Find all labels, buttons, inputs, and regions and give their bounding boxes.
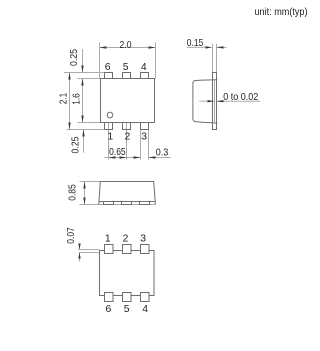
svg-text:5: 5 (123, 62, 129, 73)
lead tab left (104, 202, 114, 205)
pad 3 (141, 245, 150, 254)
svg-text:0.25: 0.25 (71, 136, 82, 153)
lead extension lines (212, 44, 214, 73)
pin 1 indicator circle (107, 112, 113, 118)
dim 0.65 line (104, 157, 126, 159)
svg-text:0.25: 0.25 (69, 49, 80, 66)
dim 1.6 line (82, 79, 84, 123)
svg-text:0.07: 0.07 (66, 227, 77, 244)
pin3 width extension lines (140, 130, 142, 160)
dim 0.85 line (84, 182, 86, 205)
body outline (bottom view) (100, 251, 155, 296)
svg-text:0.3: 0.3 (156, 148, 169, 159)
pin 1 pad (105, 123, 113, 130)
pad 2 (123, 245, 132, 254)
svg-text:0 to 0.02: 0 to 0.02 (223, 92, 258, 103)
dim 0.07 arrows (79, 243, 81, 249)
dim 0.07 extension lines (78, 249, 100, 251)
pin 4 pad (141, 73, 149, 79)
dim 2.0 line (100, 47, 156, 49)
svg-text:6: 6 (105, 62, 111, 73)
svg-text:2: 2 (123, 233, 129, 244)
dim 2.1 line (69, 73, 71, 130)
pin 5 pad (123, 73, 131, 79)
svg-text:5: 5 (124, 304, 130, 315)
svg-text:4: 4 (142, 304, 148, 315)
svg-text:2.1: 2.1 (59, 93, 70, 105)
body-bottom extension line (78, 122, 101, 124)
body bottom-surface line (behind lead) (214, 80, 216, 123)
lead (side view) (213, 73, 217, 130)
svg-text:1: 1 (105, 233, 111, 244)
dim 0 to 0.02 leader right (217, 100, 261, 102)
svg-text:1: 1 (108, 132, 114, 143)
svg-text:3: 3 (140, 233, 146, 244)
svg-text:3: 3 (141, 132, 147, 143)
body-top extension line (78, 78, 101, 80)
pin 6 pad (105, 73, 113, 79)
svg-text:unit: mm(typ): unit: mm(typ) (255, 7, 308, 18)
pitch extension lines (pins 1,2 centers) (108, 123, 110, 160)
pin 3 pad (141, 123, 149, 130)
pin 2 pad (123, 123, 131, 130)
lead tab middle (122, 202, 132, 205)
pad 1 (105, 245, 114, 254)
pin-bottom extension line (67, 129, 105, 131)
seating extension line (80, 204, 100, 206)
svg-text:6: 6 (106, 304, 112, 315)
pin-top extension line (64, 72, 104, 74)
svg-text:4: 4 (141, 62, 147, 73)
body outline (front view) (99, 182, 156, 205)
dim 2.0 arrows (100, 46, 107, 48)
svg-text:2.0: 2.0 (120, 40, 132, 51)
dim 0.3 lines (127, 157, 141, 159)
pad 4 (141, 293, 150, 302)
svg-text:0.85: 0.85 (68, 184, 79, 201)
pad 5 (123, 293, 132, 302)
dim 0.25 bottom line (83, 130, 85, 153)
lead tab right (140, 202, 150, 205)
dim 0 to 0.02 leader left (199, 100, 209, 102)
top extension line (80, 181, 101, 183)
svg-text:0.65: 0.65 (109, 147, 126, 158)
svg-text:1.6: 1.6 (72, 93, 83, 105)
dim 0.15 leader (187, 46, 207, 48)
body outline (top view) (101, 79, 155, 123)
seating plane line (99, 204, 155, 206)
pad 6 (105, 293, 114, 302)
body outline (side view) (193, 80, 218, 123)
dim 2.0 extension lines (99, 43, 101, 79)
dim 0.25 top line (82, 49, 84, 73)
svg-text:2: 2 (125, 132, 131, 143)
body bottom face line (99, 201, 155, 203)
